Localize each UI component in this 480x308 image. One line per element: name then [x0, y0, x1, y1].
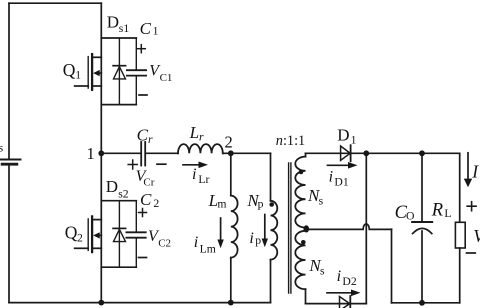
polarity dot (bottom Ns): [301, 240, 306, 245]
svg-text:L: L: [189, 123, 199, 142]
wire (Lr to primary corner): [223, 152, 271, 154]
node 2 (junction dot): [228, 150, 234, 156]
svg-text:Q: Q: [63, 60, 76, 80]
wire (left rail below battery): [8, 166, 10, 303]
wire (bottom edge of Q2 branch box): [101, 266, 136, 268]
wire (stub to top secondary winding): [305, 153, 307, 156]
wire (secondary top rail): [306, 152, 460, 154]
voltage source Vs (battery, left edge): [1, 160, 21, 165]
svg-text:m: m: [217, 198, 226, 211]
transformer core: [289, 163, 291, 293]
svg-text:L: L: [444, 207, 451, 220]
label iLr: [192, 166, 210, 186]
svg-text:C: C: [140, 190, 152, 209]
wire (right rail below RL): [459, 248, 461, 303]
svg-text:Q: Q: [65, 222, 78, 242]
label Lm: [208, 191, 227, 211]
label - (C2 polarity): [139, 257, 147, 259]
svg-text:Lm: Lm: [200, 243, 216, 256]
label Np: [246, 191, 263, 211]
label C1: [140, 19, 159, 38]
resistor RL: [455, 222, 465, 248]
svg-text:i: i: [329, 168, 333, 185]
svg-text:s: s: [319, 195, 324, 208]
node 1 (junction dot): [98, 150, 104, 156]
svg-text:V: V: [473, 226, 480, 246]
wire (node 1 to Cr): [101, 152, 140, 154]
capacitor Cr: [141, 142, 145, 166]
label + (output polarity): [467, 202, 476, 211]
label Ds2: [106, 177, 129, 200]
label VCr: [136, 168, 155, 188]
node (half-bridge bottom junction dot): [98, 300, 104, 306]
wire (Cr to Lr): [146, 152, 178, 154]
node (Lm bottom junction dot): [228, 300, 234, 306]
diode D2: [340, 296, 351, 308]
node (Co bottom junction dot): [419, 300, 425, 306]
wire (center tap drop to output minus rail): [391, 229, 393, 303]
label RL: [431, 201, 452, 221]
svg-text:s2: s2: [118, 187, 129, 200]
wire (right rail above RL): [459, 153, 461, 222]
svg-text:s: s: [320, 265, 325, 278]
label Ns (top): [307, 186, 324, 208]
node (Co top junction dot): [419, 150, 425, 156]
svg-text:s1: s1: [119, 22, 130, 35]
inductor Lm (magnetizing, vertical): [231, 153, 238, 302]
label + (C1 polarity): [137, 45, 145, 53]
svg-text:D: D: [337, 126, 349, 145]
label VC1: [149, 62, 172, 83]
label Q2: [65, 222, 83, 244]
label C2: [140, 190, 159, 210]
diode D1: [341, 145, 351, 161]
wire (bottom winding to D2): [306, 303, 367, 305]
wire (top rail): [9, 2, 101, 4]
label - (output polarity): [467, 252, 476, 254]
svg-text:1: 1: [75, 68, 81, 81]
wire (stub from bottom winding to D2 wire): [305, 289, 307, 303]
body diode Ds2: [113, 201, 126, 268]
svg-text:p: p: [255, 234, 261, 247]
label Ds1: [107, 12, 130, 35]
current arrow iLr: [183, 162, 208, 169]
svg-text:2: 2: [77, 231, 83, 244]
svg-text:i: i: [337, 268, 341, 285]
svg-text:i: i: [194, 234, 198, 251]
capacitor Co: [412, 153, 432, 302]
box around Ds1/C1 branch: wire (top edge): [101, 37, 136, 39]
svg-text:s: s: [0, 141, 4, 155]
label iD2: [337, 268, 357, 288]
current arrow ip: [262, 215, 268, 248]
svg-text:C: C: [137, 125, 149, 144]
svg-text:R: R: [431, 201, 443, 221]
svg-text:i: i: [192, 166, 196, 183]
svg-text:1: 1: [153, 25, 159, 38]
current arrow iLm: [217, 218, 223, 248]
svg-text:D2: D2: [342, 275, 356, 288]
label n:1:1 (turns ratio): [276, 133, 305, 149]
label Co: [395, 203, 415, 223]
svg-text:1: 1: [87, 144, 95, 163]
label Ns (bottom): [308, 256, 325, 278]
polarity dot (top Ns): [299, 170, 304, 175]
label + (Cr polarity): [128, 160, 137, 169]
wire (D2 return, up to plus rail): [365, 153, 367, 303]
label Lr: [189, 123, 204, 144]
svg-text:r: r: [148, 133, 153, 146]
transistor Q2: [75, 216, 102, 252]
svg-text:Lr: Lr: [198, 173, 209, 186]
wire (center tap with hop over D2 return): [306, 224, 392, 229]
label - (C1 polarity): [139, 94, 147, 96]
svg-text:D: D: [106, 177, 118, 196]
current arrow iD1: [328, 162, 358, 169]
label VC2: [148, 228, 171, 250]
label Cr: [137, 125, 153, 146]
label ip: [249, 230, 261, 247]
body diode Ds1: [113, 38, 126, 105]
capacitor C1: [127, 38, 146, 105]
wire (bottom rail, primary side): [9, 302, 271, 304]
label iD1: [329, 168, 349, 188]
inductor Lr: [178, 144, 223, 153]
label D1: [337, 126, 356, 147]
wire (node 2 down to primary winding): [270, 153, 272, 201]
wire (output minus rail): [392, 302, 460, 304]
label - (Cr polarity): [157, 163, 166, 165]
transformer secondary winding Ns (bottom): [295, 231, 305, 289]
svg-text:O: O: [406, 209, 414, 222]
transformer primary winding Np: [271, 201, 278, 260]
label iLm: [194, 234, 216, 256]
transformer secondary winding Ns (top): [295, 157, 305, 228]
svg-text:C1: C1: [160, 72, 173, 84]
current arrow iD2: [327, 290, 361, 297]
svg-text:D1: D1: [334, 175, 348, 188]
svg-text:i: i: [249, 230, 253, 247]
svg-text:n:1:1: n:1:1: [276, 133, 305, 149]
svg-text:p: p: [258, 197, 264, 210]
label + (C2 polarity): [139, 209, 147, 217]
svg-text:I: I: [471, 162, 479, 182]
svg-text:C2: C2: [158, 237, 171, 249]
wire (left rail above battery): [8, 3, 10, 158]
current arrow Io: [464, 153, 472, 188]
svg-text:r: r: [199, 131, 204, 144]
svg-text:2: 2: [153, 197, 159, 210]
svg-text:D: D: [107, 12, 119, 31]
wire (primary winding to bottom rail): [270, 260, 272, 303]
svg-text:1: 1: [351, 134, 357, 147]
wire (half-bridge vertical rail): [100, 3, 102, 302]
transistor Q1: [75, 54, 102, 90]
label Q1: [63, 60, 81, 82]
svg-text:C: C: [140, 19, 152, 38]
node (D1/D2 cathode junction dot): [363, 150, 369, 156]
polarity dot (Np): [269, 202, 274, 207]
svg-text:Cr: Cr: [143, 176, 154, 188]
capacitor C2: [126, 201, 145, 268]
svg-text:2: 2: [225, 133, 233, 152]
wire (bottom edge of Q1 branch box): [101, 104, 136, 106]
node (center tap junction dot): [304, 225, 310, 232]
wire (top edge of Q2 branch box): [101, 200, 136, 202]
